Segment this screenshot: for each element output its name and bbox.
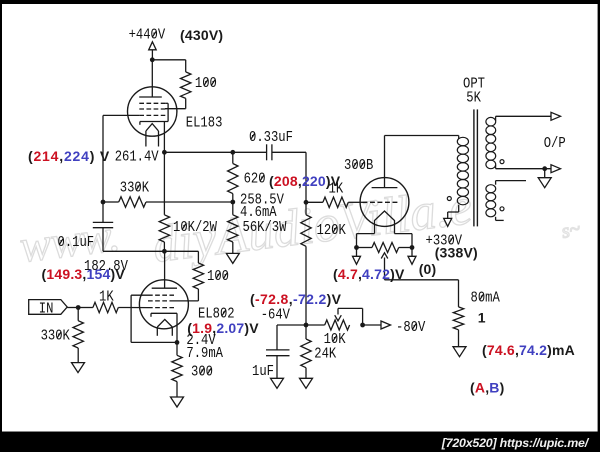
svg-text:300B: 300B [344, 158, 373, 175]
ground 56K/3W [226, 253, 239, 263]
ground secondary [544, 169, 546, 178]
wire filament right leg [395, 233, 413, 235]
wire secondary bottom stub [495, 217, 497, 221]
svg-text:300: 300 [191, 364, 213, 381]
wire 1K to 300B grid [348, 201, 362, 203]
input terminal IN [29, 300, 67, 315]
ground 300 [176, 382, 178, 397]
resistor 1K grid stopper [323, 197, 348, 207]
resistor 330K input [77, 308, 79, 321]
OPT primary winding [457, 137, 468, 145]
EL802 cathode [151, 312, 177, 314]
arrow O/P hot [551, 112, 561, 120]
wire EL183 plate lead [151, 60, 153, 97]
resistor 300 cathode [176, 342, 178, 355]
watermark www.diyAudio script [17, 178, 582, 274]
label 1K grid stopper [329, 181, 344, 198]
300B filament [375, 211, 395, 234]
node 300B grid / (208,220)V [304, 200, 309, 205]
resistor 1K input [93, 302, 118, 312]
svg-text:24K: 24K [314, 346, 337, 363]
filament supply arrow right [411, 250, 413, 257]
EL802 grid g3 [148, 294, 174, 296]
node input [76, 305, 81, 310]
wire -64V node to pot [306, 324, 325, 326]
wire 330K to 620/56K node [146, 201, 233, 203]
resistor 1 current sense [453, 307, 463, 330]
svg-text:7.9mA: 7.9mA [186, 346, 223, 363]
EL802 plate [152, 287, 177, 289]
wire R100 bottom to EL183 g2 [185, 98, 187, 108]
OPT primary phase dot [447, 197, 451, 201]
node -64V [304, 323, 309, 328]
svg-text:(-72.8,-72.2)V: (-72.8,-72.2)V [250, 291, 342, 307]
svg-text:[720x520] https://upic.me/: [720x520] https://upic.me/ [441, 436, 590, 450]
EL183 plate [139, 96, 162, 98]
node 258.5V [230, 200, 235, 205]
label 10K pot [324, 332, 347, 349]
OPT core [473, 109, 475, 226]
wire -64V node to 1uF [277, 324, 306, 326]
wire OPT secondary mid lead [495, 165, 497, 169]
wire screen resistor to g2 [197, 289, 199, 301]
EL183 grid g2 [139, 108, 165, 110]
node EL802 cathode junction [175, 340, 180, 345]
svg-text:1: 1 [478, 310, 486, 326]
hum balance pot track [357, 247, 373, 249]
svg-text:(214,224) V: (214,224) V [28, 148, 110, 164]
svg-text:(A,B): (A,B) [470, 380, 504, 396]
label 100 [195, 76, 217, 93]
hum pot wiper [384, 258, 386, 280]
arrow -80V [381, 321, 391, 329]
wire OPT primary top [458, 136, 460, 140]
wire 1K to EL802 g1 [118, 307, 148, 309]
label 80mA [471, 290, 501, 307]
wire to 1K [78, 307, 93, 309]
resistor 120K [305, 202, 307, 215]
svg-text:EL183: EL183 [186, 116, 223, 133]
label 1uF [252, 364, 274, 381]
label 24K [314, 346, 337, 363]
pot 10K wiper [337, 308, 339, 314]
tube 300B envelope [360, 178, 409, 227]
label 261.4V [115, 149, 160, 166]
svg-text:(74.6,74.2)mA: (74.6,74.2)mA [482, 342, 575, 358]
pot 10K strap [338, 307, 363, 309]
300B grid [363, 201, 400, 203]
ground 24K [305, 368, 307, 379]
node 620 top [230, 150, 235, 155]
node secondary return [542, 166, 547, 171]
svg-text:-64V: -64V [261, 307, 291, 324]
supply arrow +330V [444, 218, 452, 226]
wire EL802 plate lead [164, 251, 166, 288]
label 100 screen [207, 269, 229, 286]
wire filament left leg [357, 233, 375, 235]
label 300 [191, 364, 213, 381]
wire plate node to screen resistor [164, 250, 198, 252]
wire +440V to R 100 top [152, 59, 185, 61]
label EL183 [186, 116, 223, 133]
ground sense resistor [458, 330, 460, 347]
resistor 10K/2W [163, 152, 165, 215]
svg-text:O/P: O/P [544, 135, 566, 153]
transformer OPT label [463, 76, 485, 93]
wire to 1K grid stopper [306, 201, 323, 203]
EL183 g3 to cathode strap [165, 102, 168, 104]
node 261.4V EL183 cathode [162, 150, 167, 155]
resistor 100 screen EL802 [193, 263, 203, 289]
svg-text:(338V): (338V) [435, 245, 478, 261]
label -64V [261, 307, 291, 324]
wire EL183 g1 to grid node [103, 114, 139, 116]
wire 300B plate lead to OPT [384, 136, 386, 188]
svg-text:56K/3W: 56K/3W [243, 219, 288, 237]
node grid/330K junction [101, 200, 106, 205]
capacitor 0.33uF coupling [266, 144, 268, 160]
svg-text:120K: 120K [317, 223, 347, 240]
OPT secondary bottom winding [486, 185, 496, 193]
label 258.5V [240, 192, 285, 209]
label 7.9mA [186, 346, 223, 363]
capacitor 1uF [276, 325, 278, 350]
svg-text:80mA: 80mA [471, 290, 501, 307]
svg-text:261.4V: 261.4V [115, 149, 160, 166]
label 56K/3W [243, 219, 288, 237]
label O/P [544, 135, 566, 153]
ground 330K input [77, 348, 79, 363]
wire OPT secondary top lead [495, 116, 497, 121]
wire to -80V arrow [363, 324, 381, 326]
label 620 [244, 171, 266, 188]
svg-text:330K: 330K [41, 328, 71, 345]
svg-text:(0): (0) [419, 261, 437, 277]
resistor 620 [232, 152, 234, 163]
svg-text:0.33uF: 0.33uF [249, 130, 293, 147]
wire grid column [102, 115, 104, 222]
label +440V [129, 28, 166, 45]
EL183 cathode [140, 121, 168, 123]
EL183 heater [146, 124, 159, 131]
tube EL802 envelope [139, 280, 188, 329]
label 300B [344, 158, 373, 175]
OPT secondary phase dot bottom [500, 207, 504, 211]
EL802 g3 to cathode strap [131, 294, 148, 296]
power rail +440V arrow [149, 42, 157, 50]
EL802 grid g2 [148, 300, 174, 302]
label 0.1uF [58, 235, 95, 252]
resistor 56K/3W [232, 202, 234, 215]
node +440V junction [150, 57, 155, 62]
label 0.33uF [249, 130, 293, 147]
svg-text:5K: 5K [466, 90, 481, 107]
tube EL183 envelope [128, 87, 177, 136]
resistor 100 (EL183 screen feed) [181, 72, 191, 99]
svg-text:+440V: +440V [129, 28, 166, 45]
svg-text:(430V): (430V) [180, 27, 223, 43]
wire 0.1uF to 182.8V node [102, 228, 104, 252]
wire 0.33uF to grid node 300B [272, 151, 306, 153]
svg-text:1K: 1K [329, 181, 344, 198]
caption bar [0, 432, 600, 452]
EL802 heater [157, 319, 172, 327]
svg-text:IN: IN [39, 302, 54, 319]
capacitor 0.1uF [93, 221, 113, 223]
resistor 330K feedback [119, 197, 146, 207]
svg-text:1K: 1K [99, 289, 114, 306]
svg-text:(149.3,154)V: (149.3,154)V [42, 266, 126, 282]
wire EL802 cathode lead [176, 313, 178, 342]
arrow O/P return [551, 165, 561, 173]
pot 10K track [325, 320, 350, 330]
node filament left [354, 245, 359, 250]
svg-text:100: 100 [195, 76, 217, 93]
300B plate [372, 187, 398, 189]
resistor 24K [305, 325, 307, 339]
label +330V [426, 233, 463, 250]
svg-text:330K: 330K [120, 180, 150, 197]
label 330K input [41, 328, 71, 345]
node filament right [410, 245, 415, 250]
label 4.6mA [240, 205, 277, 222]
wire secondary tap stub [495, 181, 497, 185]
ground 1uF [276, 356, 278, 379]
wire 330K left lead [103, 201, 119, 203]
wire cathode node to coupling cap [164, 151, 266, 153]
wire hum pot wiper to sense resistor [385, 279, 459, 281]
label 2.4V [186, 333, 216, 350]
wire IN to node [67, 307, 78, 309]
EL183 grid g1 [139, 114, 165, 116]
label 330K [120, 180, 150, 197]
node 182.8V EL802 plate [162, 249, 167, 254]
EL183 grid g3 [139, 102, 165, 104]
label EL802 [198, 306, 235, 323]
wire EL183 cathode lead [163, 122, 165, 152]
wire OPT primary bottom to +330V [458, 205, 460, 212]
label 10K/2W [173, 219, 218, 237]
label -80V [396, 320, 426, 337]
filament supply arrow left [356, 250, 358, 257]
svg-text:-80V: -80V [396, 320, 426, 337]
svg-text:0.1uF: 0.1uF [58, 235, 95, 252]
svg-text:10K/2W: 10K/2W [173, 219, 218, 237]
label 182.8V [84, 259, 129, 276]
label 1K input [99, 289, 114, 306]
svg-text:620: 620 [244, 171, 266, 188]
node pot output [360, 323, 365, 328]
OPT secondary top winding [486, 117, 496, 126]
OPT secondary phase dot top [500, 160, 504, 164]
EL802 grid g1 [148, 307, 174, 309]
label 120K [317, 223, 347, 240]
svg-text:100: 100 [207, 269, 229, 286]
